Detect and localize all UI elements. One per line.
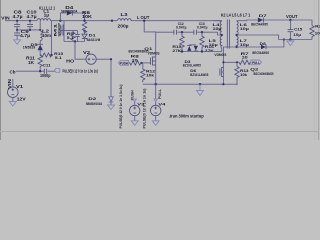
diode D4	[65, 5, 74, 15]
resistor R13	[235, 62, 250, 85]
svg-text:V1: V1	[16, 84, 24, 89]
resistor R11	[26, 55, 42, 68]
svg-text:SBM3W160A: SBM3W160A	[61, 8, 78, 13]
svg-text:PULSE(0 12 0 1n 1n 1.3u 2u): PULSE(0 12 0 1n 1n 1.3u 2u)	[63, 68, 99, 73]
svg-text:D8: D8	[260, 41, 267, 46]
transformer core	[226, 20, 228, 49]
svg-text:4.7µ: 4.7µ	[20, 33, 31, 38]
svg-text:1000p: 1000p	[40, 73, 51, 78]
svg-text:10µ: 10µ	[213, 26, 223, 31]
wire HO drop	[75, 42, 86, 60]
svg-text:VDMOS: VDMOS	[214, 52, 226, 57]
wire ground rail	[143, 83, 237, 85]
svg-text:PULL: PULL	[157, 88, 162, 99]
svg-text:V4: V4	[158, 101, 166, 106]
wire Cb net	[16, 70, 44, 72]
svg-text:.tran 300m startup: .tran 300m startup	[169, 113, 204, 118]
inductor L4	[213, 21, 223, 36]
svg-text:5.1: 5.1	[67, 35, 75, 40]
diode D3 dual	[183, 45, 209, 77]
svg-text:BZ101LAW05: BZ101LAW05	[190, 72, 209, 77]
resistor R7	[239, 51, 251, 65]
svg-text:10µ: 10µ	[209, 42, 219, 47]
svg-text:BSC040N08NS5: BSC040N08NS5	[254, 71, 275, 76]
wire V2 right	[96, 59, 111, 96]
svg-text:PULL: PULL	[252, 60, 260, 65]
svg-text:HO: HO	[66, 58, 75, 63]
source V4 group	[151, 84, 167, 125]
flag PULL	[251, 60, 262, 65]
wire D8 branch	[237, 46, 261, 48]
resistor R8	[129, 54, 142, 66]
svg-text:L3: L3	[121, 12, 129, 17]
svg-text:1µ: 1µ	[44, 13, 50, 18]
resistor R6	[82, 10, 92, 34]
svg-text:10µ: 10µ	[293, 32, 301, 37]
svg-text:SBM3W160A: SBM3W160A	[86, 101, 103, 106]
diode D4 bridge wire	[60, 13, 66, 21]
voltage source V1	[7, 79, 26, 102]
wire cap bottom bus	[17, 29, 40, 31]
svg-text:100: 100	[315, 30, 320, 35]
resistor R10	[40, 53, 52, 57]
svg-text:10K: 10K	[82, 14, 92, 19]
inductor L3	[111, 12, 131, 28]
transistor Q1	[129, 46, 160, 84]
svg-text:PUSH: PUSH	[120, 61, 128, 66]
svg-text:K2 L4 L5 L6 L7 1: K2 L4 L5 L6 L7 1	[221, 13, 251, 18]
svg-text:10: 10	[132, 57, 139, 62]
ground under C9	[14, 40, 21, 45]
inductor L6	[237, 21, 250, 36]
wire rail drop to push-pull	[144, 21, 156, 55]
wire L1 right leg	[51, 21, 53, 55]
svg-text:12V: 12V	[17, 97, 26, 102]
source V3 group	[130, 90, 146, 125]
svg-text:10µ: 10µ	[240, 26, 250, 31]
svg-text:Cb: Cb	[10, 69, 16, 74]
inductor L5	[209, 36, 222, 48]
transistor Q2	[214, 52, 274, 77]
svg-text:VIN: VIN	[1, 16, 10, 21]
ground mid	[199, 84, 201, 90]
svg-text:4.7µ: 4.7µ	[27, 14, 38, 19]
svg-text:BAS21VM: BAS21VM	[87, 37, 101, 42]
svg-text:27K: 27K	[205, 48, 214, 53]
svg-text:10µ: 10µ	[240, 42, 250, 47]
svg-text:C11: C11	[43, 62, 52, 67]
wire center tap to vout return	[237, 35, 279, 40]
svg-text:1N5819: 1N5819	[23, 45, 36, 50]
svg-text:K1 L1 L2 1: K1 L1 L2 1	[39, 6, 56, 11]
svg-text:10k: 10k	[146, 73, 155, 78]
svg-text:C15: C15	[294, 27, 303, 32]
wire cap feed bus	[156, 31, 174, 33]
svg-text:VIN: VIN	[7, 79, 12, 89]
svg-text:200µ: 200µ	[118, 23, 130, 28]
diode D1	[82, 30, 101, 42]
wire zener bottom bus	[179, 51, 218, 53]
inductor L2	[40, 21, 51, 45]
flag pulse port	[54, 68, 59, 72]
svg-text:10: 10	[242, 54, 249, 59]
svg-text:10m: 10m	[42, 33, 51, 38]
svg-text:1K: 1K	[28, 60, 34, 65]
wire L7 bottom to Q2 drain	[223, 47, 236, 84]
capacitor gate	[75, 31, 80, 42]
svg-text:0.047µ: 0.047µ	[176, 25, 187, 30]
svg-text:27K: 27K	[172, 48, 181, 53]
resistor R5	[67, 31, 75, 42]
svg-text:BEC54AW05: BEC54AW05	[252, 50, 269, 55]
svg-text:PULSE(0 12 0 1n 1n 1u): PULSE(0 12 0 1n 1n 1u)	[141, 88, 146, 129]
wire D7 to VOUT and R2	[264, 20, 312, 26]
wire VIN rail	[5, 20, 37, 22]
inductor L7	[237, 36, 250, 48]
resistor R15	[172, 31, 184, 53]
inductor L1	[37, 19, 51, 21]
flag PUSH	[118, 61, 128, 66]
svg-text:VDMOS: VDMOS	[148, 51, 160, 56]
capacitor C11	[40, 62, 51, 78]
wire rail L3 to L4 stub	[131, 20, 222, 22]
capacitor C12	[174, 21, 187, 35]
capacitor C9	[14, 29, 31, 40]
resistor R12	[141, 63, 156, 82]
svg-text:BEC54AW05: BEC54AW05	[251, 22, 268, 27]
capacitor C15	[288, 20, 303, 40]
wire M1 source bus	[64, 41, 85, 43]
voltage source V2	[83, 50, 96, 64]
ground under D2	[108, 105, 115, 110]
svg-text:SiR840DP: SiR840DP	[57, 23, 61, 37]
ground under V1	[9, 102, 16, 107]
svg-text:D7: D7	[259, 13, 268, 18]
svg-text:4.7µ: 4.7µ	[13, 14, 24, 19]
diode D7	[251, 13, 268, 27]
svg-text:R2: R2	[315, 24, 320, 29]
resistor R2	[310, 24, 320, 40]
diode D8	[252, 41, 269, 55]
capacitor C8	[13, 10, 24, 30]
transistor M1	[54, 20, 64, 42]
wire Q2 gate bus	[223, 61, 239, 63]
wire top rail right to D7	[247, 19, 257, 22]
wire vout bottom bus	[279, 39, 312, 41]
diode D2	[86, 96, 114, 106]
resistor R16	[200, 31, 215, 53]
diode D5	[23, 42, 43, 54]
svg-text:10k: 10k	[240, 72, 248, 77]
wire Q1 gate	[142, 62, 151, 64]
svg-text:VOUT: VOUT	[286, 14, 298, 19]
svg-text:PULSE(0 12 0 1n 1n 1.3u 2u): PULSE(0 12 0 1n 1n 1.3u 2u)	[118, 84, 123, 129]
capacitor C10	[27, 10, 38, 30]
svg-text:V2: V2	[83, 50, 91, 55]
svg-text:L OUT: L OUT	[137, 15, 150, 20]
wire gate bus	[61, 30, 78, 32]
svg-text:0.047µ: 0.047µ	[197, 25, 208, 30]
capacitor C13	[194, 21, 208, 35]
wire rail L1 to L3	[51, 20, 118, 22]
svg-text:5.1: 5.1	[55, 55, 63, 60]
svg-text:BZ101LAW05: BZ101LAW05	[183, 62, 202, 67]
ground under C15	[287, 41, 294, 46]
